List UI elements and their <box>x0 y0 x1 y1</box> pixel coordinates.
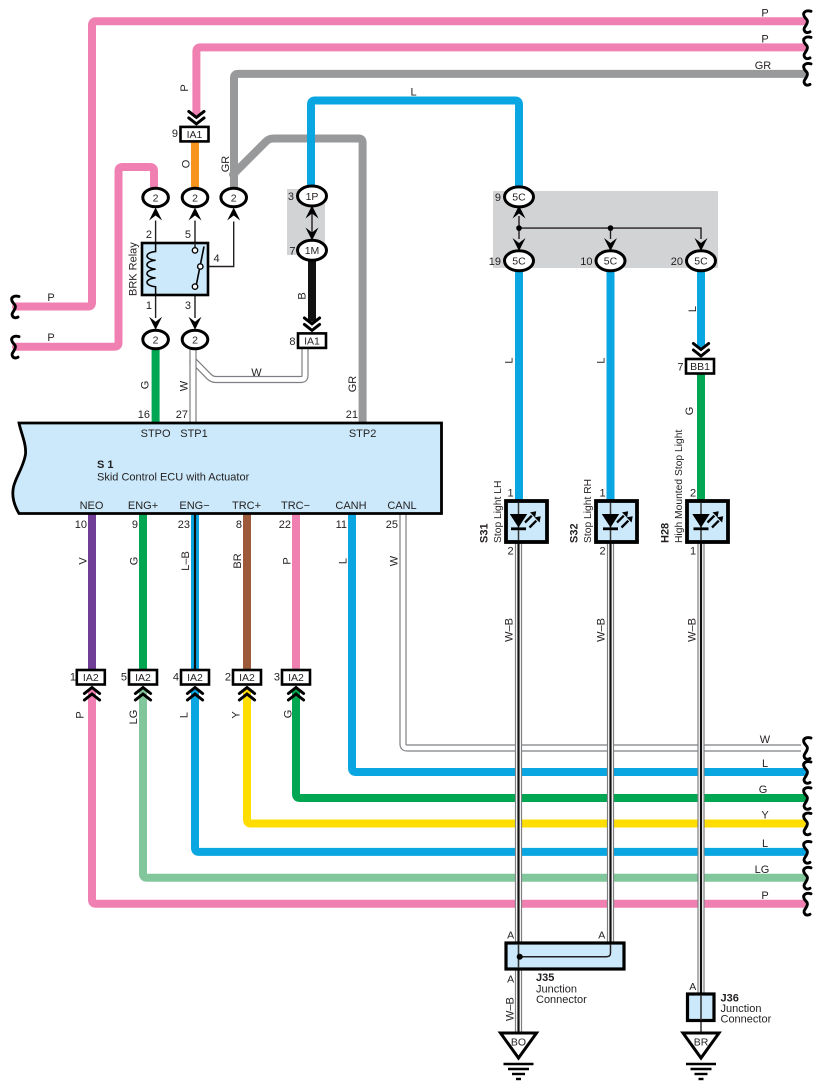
wire 5C-19 lead <box>518 228 520 239</box>
svg-text:4: 4 <box>214 253 220 265</box>
svg-text:H28: H28 <box>660 523 672 543</box>
svg-text:STPO: STPO <box>141 428 171 440</box>
svg-text:W–B: W–B <box>504 618 516 642</box>
wire G (ENG+) <box>139 514 147 672</box>
svg-text:J35: J35 <box>536 972 554 984</box>
svg-text:1: 1 <box>599 488 605 500</box>
svg-text:L: L <box>762 838 768 850</box>
svg-text:G: G <box>140 381 152 390</box>
svg-text:Y: Y <box>761 810 769 822</box>
svg-text:W: W <box>179 380 191 391</box>
node connector 2 (relay pin 1) <box>149 317 162 330</box>
svg-text:BB1: BB1 <box>690 361 710 373</box>
ground BO <box>501 1033 537 1058</box>
connector IA2 pin 4 <box>187 688 202 694</box>
wire W (branch to IA1 pin 8) <box>192 347 306 380</box>
connector IA2 pin 5 <box>135 688 150 694</box>
svg-text:Skid Control ECU with Actuator: Skid Control ECU with Actuator <box>97 472 250 484</box>
svg-text:Connector: Connector <box>721 1014 772 1026</box>
ECU S 1 Skid Control ECU with Actuator <box>13 423 442 514</box>
svg-text:B: B <box>297 292 309 299</box>
wire Y (IA2-2 to right edge) <box>247 693 803 824</box>
svg-text:BO: BO <box>511 1037 526 1049</box>
ground BR <box>683 1033 719 1058</box>
junction connector J36 <box>688 994 715 1021</box>
wire P (top feed from left edge) <box>16 21 803 306</box>
svg-text:Stop Light LH: Stop Light LH <box>493 481 504 543</box>
stop light H28 (High Mounted Stop Light) <box>687 501 728 542</box>
connector 5C pin 9 <box>513 206 526 219</box>
svg-text:P: P <box>282 557 294 564</box>
node connector 2 (relay pin 3) <box>189 317 202 330</box>
wire W (relay pin3 to STP1) <box>189 349 196 423</box>
svg-text:L–B: L–B <box>180 551 192 571</box>
svg-text:5C: 5C <box>512 192 526 204</box>
svg-text:LG: LG <box>128 710 140 725</box>
svg-text:L: L <box>762 758 768 770</box>
svg-text:IA2: IA2 <box>239 672 255 684</box>
svg-text:5C: 5C <box>512 256 526 268</box>
wire BR (TRC+) <box>243 514 251 672</box>
svg-text:22: 22 <box>279 519 291 531</box>
wire W-B (H28 to J36) <box>697 541 704 995</box>
wire L-B (ENG-) <box>191 514 199 672</box>
svg-text:1: 1 <box>507 488 513 500</box>
stop light S31 (Stop Light LH) <box>506 501 547 542</box>
svg-text:1: 1 <box>690 546 696 558</box>
svg-text:2: 2 <box>599 546 605 558</box>
connector 1P pin 3 <box>306 206 319 219</box>
svg-text:P: P <box>75 711 87 718</box>
relay switch <box>194 243 196 248</box>
svg-text:20: 20 <box>671 256 683 268</box>
connector block shading 1P/1M <box>287 189 325 255</box>
connector 5C pin 19 <box>513 238 526 251</box>
svg-text:21: 21 <box>346 409 358 421</box>
svg-text:NEO: NEO <box>80 500 104 512</box>
svg-text:Y: Y <box>231 711 243 719</box>
connector IA1 pin 9 <box>189 118 204 124</box>
wire P (second feed to relay) <box>16 167 154 347</box>
svg-text:4: 4 <box>173 672 179 684</box>
svg-text:8: 8 <box>236 519 242 531</box>
wire relay pin5 lead <box>194 221 196 244</box>
wire 5C-10 lead <box>610 228 612 239</box>
svg-text:IA2: IA2 <box>288 672 304 684</box>
svg-text:L: L <box>338 558 350 564</box>
wire relay pin4 lead <box>203 222 234 267</box>
svg-text:1M: 1M <box>305 245 320 257</box>
svg-text:IA1: IA1 <box>304 335 320 347</box>
svg-text:S32: S32 <box>569 523 581 543</box>
connector IA1 pin 8 <box>304 324 319 330</box>
svg-text:S 1: S 1 <box>97 459 114 471</box>
svg-text:W–B: W–B <box>596 618 608 642</box>
wire 5C-9 lead <box>518 216 520 228</box>
svg-text:W–B: W–B <box>505 997 517 1021</box>
svg-text:5: 5 <box>121 672 127 684</box>
node connector 2 (relay pin 5) <box>189 208 202 221</box>
svg-text:2: 2 <box>225 672 231 684</box>
svg-text:ENG+: ENG+ <box>128 500 158 512</box>
svg-text:16: 16 <box>138 409 150 421</box>
svg-text:O: O <box>181 159 193 168</box>
svg-text:5C: 5C <box>604 256 618 268</box>
svg-text:ENG−: ENG− <box>179 500 209 512</box>
svg-text:P: P <box>761 890 768 902</box>
svg-text:19: 19 <box>489 256 501 268</box>
wire G (IA2-3 to right edge) <box>296 693 803 799</box>
svg-text:9: 9 <box>132 519 138 531</box>
stop light S32 (Stop Light RH) <box>596 501 637 542</box>
svg-text:P: P <box>47 332 54 344</box>
wire break squiggles left edge <box>12 296 19 318</box>
svg-text:IA2: IA2 <box>187 672 203 684</box>
svg-text:25: 25 <box>386 519 398 531</box>
svg-text:L: L <box>410 87 416 99</box>
svg-text:L: L <box>687 306 699 312</box>
svg-text:V: V <box>78 557 90 565</box>
wire P (IA2-1 to right edge) <box>92 693 803 904</box>
svg-text:CANH: CANH <box>335 500 366 512</box>
svg-text:2: 2 <box>192 192 198 204</box>
svg-text:STP2: STP2 <box>349 428 377 440</box>
wire G (relay pin1 to STPO) <box>152 349 160 423</box>
wire L (top run to 1P and 5C) <box>311 101 519 191</box>
svg-text:A: A <box>507 930 514 942</box>
wire W-B (S31 to J35 and ground) <box>515 542 522 1033</box>
svg-text:IA1: IA1 <box>187 129 203 141</box>
svg-text:2: 2 <box>192 334 198 346</box>
svg-text:TRC−: TRC− <box>281 500 310 512</box>
svg-text:1: 1 <box>146 300 152 312</box>
relay BRK Relay <box>142 243 208 295</box>
svg-text:2: 2 <box>153 334 159 346</box>
wire 5C bus <box>519 228 701 239</box>
svg-text:G: G <box>129 557 141 566</box>
svg-text:BR: BR <box>232 553 244 568</box>
wire P (to IA1 pin 9) <box>196 47 803 114</box>
connector 5C pin 10 <box>604 238 617 251</box>
svg-text:2: 2 <box>146 229 152 241</box>
svg-text:10: 10 <box>75 519 87 531</box>
wire relay pin2 lead <box>155 221 157 244</box>
wire W-B (S32 to J35) <box>607 542 614 944</box>
svg-text:3: 3 <box>288 191 294 203</box>
svg-text:IA2: IA2 <box>83 672 99 684</box>
svg-text:5: 5 <box>185 229 191 241</box>
svg-text:L: L <box>596 357 608 363</box>
connector 1M pin 7 <box>306 228 319 241</box>
svg-text:P: P <box>179 84 191 91</box>
svg-text:8: 8 <box>289 336 295 348</box>
wire relay pin3 lead <box>194 289 196 318</box>
svg-text:7: 7 <box>289 245 295 257</box>
svg-text:BR: BR <box>694 1037 709 1049</box>
svg-text:W: W <box>389 555 401 566</box>
svg-text:G: G <box>283 710 295 719</box>
wire L (5C-20 to BB1) <box>697 270 705 348</box>
svg-text:STP1: STP1 <box>180 428 208 440</box>
svg-text:L: L <box>179 712 191 718</box>
svg-text:BRK Relay: BRK Relay <box>128 242 140 296</box>
svg-text:Stop Light RH: Stop Light RH <box>583 479 594 543</box>
svg-text:W: W <box>251 367 262 379</box>
svg-text:23: 23 <box>178 519 190 531</box>
svg-text:5C: 5C <box>694 256 708 268</box>
wire O (IA1 to relay pin 5 connector) <box>191 142 199 187</box>
svg-text:P: P <box>47 292 54 304</box>
wire LG (IA2-5 to right edge) <box>143 693 803 878</box>
wire G (BB1 to H28) <box>697 373 705 504</box>
wire L (5C-10 to S32) <box>607 270 615 503</box>
svg-text:A: A <box>598 930 605 942</box>
svg-text:L: L <box>504 357 516 363</box>
node 5C bus junctions <box>516 225 522 231</box>
svg-text:GR: GR <box>220 156 232 173</box>
wire relay pin1 lead <box>155 294 157 318</box>
svg-text:2: 2 <box>153 192 159 204</box>
connector IA2 pin 1 <box>84 688 99 694</box>
svg-text:G: G <box>759 784 768 796</box>
svg-text:27: 27 <box>176 409 188 421</box>
svg-text:9: 9 <box>495 192 501 204</box>
svg-text:9: 9 <box>172 128 178 140</box>
svg-text:3: 3 <box>185 300 191 312</box>
svg-text:Connector: Connector <box>536 994 587 1006</box>
wire P (TRC-) <box>292 514 300 672</box>
svg-text:TRC+: TRC+ <box>232 500 261 512</box>
wire 1P-1M link <box>311 209 313 238</box>
svg-text:1P: 1P <box>306 191 319 203</box>
wire L (IA2-4 to right edge) <box>195 693 803 852</box>
wire (J36 to ground) <box>700 995 702 1033</box>
svg-text:P: P <box>761 7 768 19</box>
svg-text:P: P <box>761 33 768 45</box>
svg-text:2: 2 <box>231 192 237 204</box>
relay coil <box>147 243 156 294</box>
svg-text:W: W <box>760 734 771 746</box>
svg-text:W–B: W–B <box>687 618 699 642</box>
wire L (CANH to right edge) <box>352 514 803 772</box>
svg-text:GR: GR <box>347 376 359 393</box>
svg-text:1: 1 <box>70 672 76 684</box>
svg-text:10: 10 <box>580 256 592 268</box>
svg-text:G: G <box>684 407 696 416</box>
svg-text:S31: S31 <box>479 523 491 543</box>
wire V (NEO) <box>88 514 96 672</box>
wire B (1M to IA1 pin 8) <box>308 259 316 322</box>
svg-text:IA2: IA2 <box>135 672 151 684</box>
svg-text:High Mounted Stop Light: High Mounted Stop Light <box>674 430 685 543</box>
svg-text:A: A <box>507 974 514 986</box>
wire GR (branch to STP2) <box>233 139 363 424</box>
svg-text:GR: GR <box>755 60 772 72</box>
svg-text:LG: LG <box>755 864 770 876</box>
svg-text:CANL: CANL <box>387 500 416 512</box>
svg-text:2: 2 <box>507 546 513 558</box>
node connector 2 (relay pin 4) <box>227 208 240 221</box>
svg-text:A: A <box>689 981 696 993</box>
svg-text:11: 11 <box>336 519 347 531</box>
svg-text:2: 2 <box>690 488 696 500</box>
svg-text:7: 7 <box>677 362 683 374</box>
connector BB1 pin 7 <box>693 350 708 356</box>
connector IA2 pin 2 <box>239 688 254 694</box>
wire GR (to relay pin 4 connector) <box>234 74 803 188</box>
connector IA2 pin 3 <box>288 688 303 694</box>
connector 5C pin 20 <box>695 238 708 251</box>
wire break squiggles right edge <box>804 11 811 33</box>
node connector 2 (relay pin 2) <box>149 208 162 221</box>
wire W (CANL to right edge) <box>403 514 801 748</box>
junction connector J35 <box>506 943 624 969</box>
wire L (5C-19 to S31) <box>515 270 523 503</box>
svg-text:3: 3 <box>274 672 280 684</box>
connector block shading 5C <box>493 191 718 268</box>
